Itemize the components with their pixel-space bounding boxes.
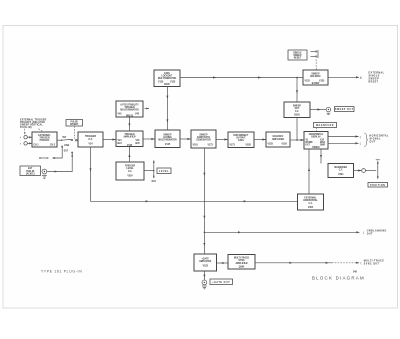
svg-text:EXT: EXT (306, 145, 311, 147)
wire T1 to T2 (180, 77, 303, 79)
svg-text:MULTI-TRACE: MULTI-TRACE (364, 260, 384, 263)
svg-text:V183: V183 (268, 144, 274, 146)
svg-text:(AC/DC): (AC/DC) (26, 172, 35, 175)
ext trigger input connector (42, 169, 47, 178)
svg-text:C.F.: C.F. (308, 203, 312, 205)
stub arrow right of TM (145, 108, 150, 110)
svg-text:AMPLIFIER: AMPLIFIER (272, 138, 284, 141)
wire TL up to R3 (128, 147, 130, 163)
wire R1 to switch (57, 139, 62, 141)
svg-text:SW301: SW301 (312, 147, 320, 149)
svg-text:CH 2: CH 2 (50, 145, 56, 147)
text sawtooth out (367, 229, 387, 235)
input connector J1 (20, 136, 32, 140)
svg-text:CH 1: CH 1 (34, 145, 40, 147)
trigger level potentiometer (152, 160, 157, 183)
gate out connector (202, 280, 207, 289)
wire TM down to R3 (128, 117, 130, 131)
svg-text:MULTIVIBRATOR: MULTIVIBRATOR (158, 139, 177, 142)
input connector J2 (20, 142, 32, 146)
svg-text:Q294: Q294 (239, 265, 245, 268)
svg-text:V304: V304 (308, 206, 314, 209)
box R1 external trigger pickoff amplifier (32, 132, 57, 147)
switch arm (61, 140, 62, 141)
svg-text:INT: INT (63, 137, 67, 139)
label box magnifier (314, 123, 337, 128)
wire R8 output upper (328, 136, 359, 138)
box M magnifier C.F. (328, 164, 354, 178)
svg-text:HOLDOFF: HOLDOFF (310, 76, 321, 78)
label box position (368, 183, 388, 188)
svg-text:HORIZONTAL: HORIZONTAL (303, 199, 318, 202)
svg-text:UNBLANKING: UNBLANKING (367, 229, 387, 232)
svg-text:)(: )( (360, 78, 362, 80)
text horizontal signal out (370, 134, 390, 143)
wire junction down to S1 (296, 78, 298, 103)
svg-text:V233: V233 (203, 265, 209, 267)
svg-text:LEVEL: LEVEL (159, 171, 169, 173)
svg-text:DISPLAY: DISPLAY (311, 136, 321, 139)
box R8 horizontal display switch (304, 132, 328, 150)
svg-text:GATE: GATE (238, 139, 245, 142)
wire R8 down to magnifier C.F. (320, 149, 322, 164)
svg-text:EXTERNAL: EXTERNAL (369, 71, 385, 74)
box TM trigger multivibrator (above R3) (116, 101, 143, 117)
svg-text:+GATE: +GATE (201, 257, 209, 260)
svg-text:C.F.: C.F. (295, 111, 299, 113)
svg-text:V173: V173 (208, 144, 214, 146)
svg-text:MULTIVIBRATOR: MULTIVIBRATOR (120, 109, 139, 112)
box R2 trigger C.F. (78, 132, 103, 147)
svg-text:SWEEP OUT: SWEEP OUT (335, 109, 354, 111)
box R7 holdoff circuit (266, 132, 290, 147)
wire R4 to R5 (180, 138, 191, 140)
wire R6 to R7 (254, 139, 266, 141)
svg-text:MAGNIFIER: MAGNIFIER (316, 124, 334, 127)
svg-text:SWP: SWP (320, 145, 326, 147)
wire T2 to external single sweep reset (328, 76, 359, 78)
sweep out connector (326, 107, 331, 114)
wire T1 down to R4 (166, 87, 168, 131)
svg-text:PLUG-IN): PLUG-IN) (20, 127, 32, 129)
box R3 trigger amplifier (116, 131, 143, 147)
svg-text:MULTIVIBRATOR: MULTIVIBRATOR (158, 77, 177, 80)
reset pushbutton switch (311, 50, 319, 58)
box EH external horizontal C.F. (298, 194, 324, 210)
wire R2 to R3 (103, 139, 116, 141)
box S1 sweep C.F. (284, 102, 310, 118)
wire EH up to R8 (308, 149, 310, 194)
svg-text:SIGNAL: SIGNAL (370, 137, 382, 140)
svg-text:V161: V161 (193, 144, 199, 146)
svg-text:MAGNIFIER: MAGNIFIER (334, 166, 347, 169)
wire MT to GA (217, 262, 229, 264)
box T1 gate lockout multivibrator (154, 70, 180, 87)
box R6 disconnect amplifier (228, 132, 254, 148)
wire S1 down to junction (296, 118, 298, 141)
svg-text:B-SWP: B-SWP (312, 83, 320, 85)
dashed link pulse invert to switch (74, 126, 76, 138)
text multi-trace sync out (364, 260, 384, 266)
svg-text:MAG: MAG (320, 141, 325, 144)
wire R7 to R8 with junction (290, 139, 304, 141)
svg-text:SAWTOOTH: SAWTOOTH (197, 136, 210, 139)
svg-text:SINGLE: SINGLE (369, 75, 380, 77)
svg-text:V125: V125 (158, 81, 164, 83)
svg-text:SWEEP: SWEEP (369, 78, 380, 80)
wire R5 down to gate amplifier (203, 148, 205, 254)
switch contacts (71, 139, 73, 141)
wire R2 down to horizontal line (91, 147, 298, 201)
box TL trigger level C.F. (116, 162, 144, 180)
wire R3 to R4 (143, 138, 155, 140)
brace for horizontal outputs (364, 133, 368, 147)
svg-text:RESET: RESET (294, 58, 302, 60)
svg-text:PULSE: PULSE (70, 121, 78, 123)
svg-text:C.F.: C.F. (128, 171, 132, 173)
svg-text:B135: B135 (164, 84, 170, 86)
svg-text:R24: R24 (152, 180, 157, 183)
svg-text:AMPLIFIER: AMPLIFIER (123, 136, 135, 139)
svg-text:INVERT: INVERT (70, 124, 79, 126)
dashed link switch to T2 (315, 60, 317, 71)
svg-text:B193: B193 (294, 114, 300, 116)
svg-text:+GATE OUT: +GATE OUT (212, 281, 230, 284)
label box level (157, 168, 171, 174)
svg-text:V193: V193 (282, 144, 288, 146)
svg-text:SYNC OUT: SYNC OUT (364, 264, 380, 266)
svg-text:C.F.: C.F. (339, 170, 343, 172)
wire GA to gate out connector (203, 271, 205, 280)
line trigger contact (62, 146, 63, 147)
box T2 sweep reset multivibrator (303, 70, 328, 85)
svg-text:C.F.: C.F. (88, 138, 93, 141)
junction on T1-T2 wire (296, 77, 298, 79)
svg-text:V173: V173 (230, 144, 236, 146)
svg-text:115 V AC: 115 V AC (39, 157, 49, 160)
box MT multi-trace sync amplifier (228, 255, 255, 270)
svg-text:V135: V135 (319, 81, 325, 83)
svg-text:AMPLIFIER: AMPLIFIER (235, 262, 247, 265)
label box: pulse invert (66, 120, 83, 127)
svg-text:TYPE 181 PLUG-IN: TYPE 181 PLUG-IN (41, 269, 82, 273)
label box +gate out (210, 279, 233, 285)
position potentiometer (376, 160, 380, 179)
svg-text:EXTERNAL: EXTERNAL (304, 197, 317, 200)
svg-text:AUTO STABILITY: AUTO STABILITY (120, 103, 139, 106)
svg-text:MULTI-TRACE: MULTI-TRACE (234, 257, 250, 260)
wire R5 to R6 (216, 139, 228, 141)
svg-text:GATING: GATING (163, 136, 172, 139)
svg-text:AMPLIFIER: AMPLIFIER (199, 260, 211, 263)
svg-text:HORIZONTAL: HORIZONTAL (370, 134, 390, 137)
ext trigger contact (72, 152, 73, 153)
box R5 sweep sawtooth generator (191, 130, 216, 148)
label box L1 single sweep (288, 50, 307, 60)
wire S1 to sweep out connector (310, 109, 326, 111)
wire MT to sync out (255, 262, 332, 264)
text external single sweep reset (369, 71, 385, 83)
label box sweep out (335, 107, 355, 112)
svg-text:HORIZONTAL: HORIZONTAL (309, 133, 324, 136)
leader arrow to input connector (24, 129, 26, 133)
svg-text:V125: V125 (305, 81, 311, 83)
svg-text:RESET: RESET (369, 81, 379, 83)
svg-text:POSITION: POSITION (370, 185, 385, 187)
svg-text:GENERATOR: GENERATOR (196, 139, 211, 142)
svg-text:V135: V135 (170, 81, 176, 83)
svg-text:V145: V145 (165, 143, 171, 146)
svg-text:PICKOFF: PICKOFF (40, 140, 51, 142)
svg-text:EXTERNAL: EXTERNAL (38, 134, 51, 137)
label box bottom-left (ext trig input note) (20, 166, 41, 176)
wire M to position control (354, 170, 362, 172)
wire TL to level pot (144, 170, 154, 172)
svg-text:V524: V524 (127, 174, 133, 177)
dashed link magnifier to R8 (316, 128, 318, 132)
svg-text:LINE: LINE (64, 145, 70, 147)
wire sawtooth out (204, 231, 359, 233)
connector at magnifier output (362, 169, 366, 173)
leader arrow to box R1 (39, 129, 43, 131)
box R4 sweep gating multivibrator (155, 130, 180, 148)
wire R8 output lower (328, 142, 359, 144)
note: external trigger pickoff text block (20, 119, 46, 129)
wire ext connector to ext contact (47, 153, 72, 171)
svg-text:OUT: OUT (367, 233, 373, 235)
wire 115V AC to line contact (53, 147, 63, 158)
box GA gate amplifier (194, 254, 217, 271)
junction sawtooth tap (204, 232, 206, 234)
svg-text:GATE: GATE (164, 72, 171, 75)
svg-text:V324: V324 (338, 173, 344, 176)
svg-text:EXT: EXT (64, 150, 69, 152)
svg-text:OUT: OUT (370, 141, 376, 143)
svg-text:BLOCK DIAGRAM: BLOCK DIAGRAM (312, 276, 365, 281)
svg-text:V135: V135 (127, 145, 133, 147)
svg-text:V183: V183 (246, 144, 252, 146)
